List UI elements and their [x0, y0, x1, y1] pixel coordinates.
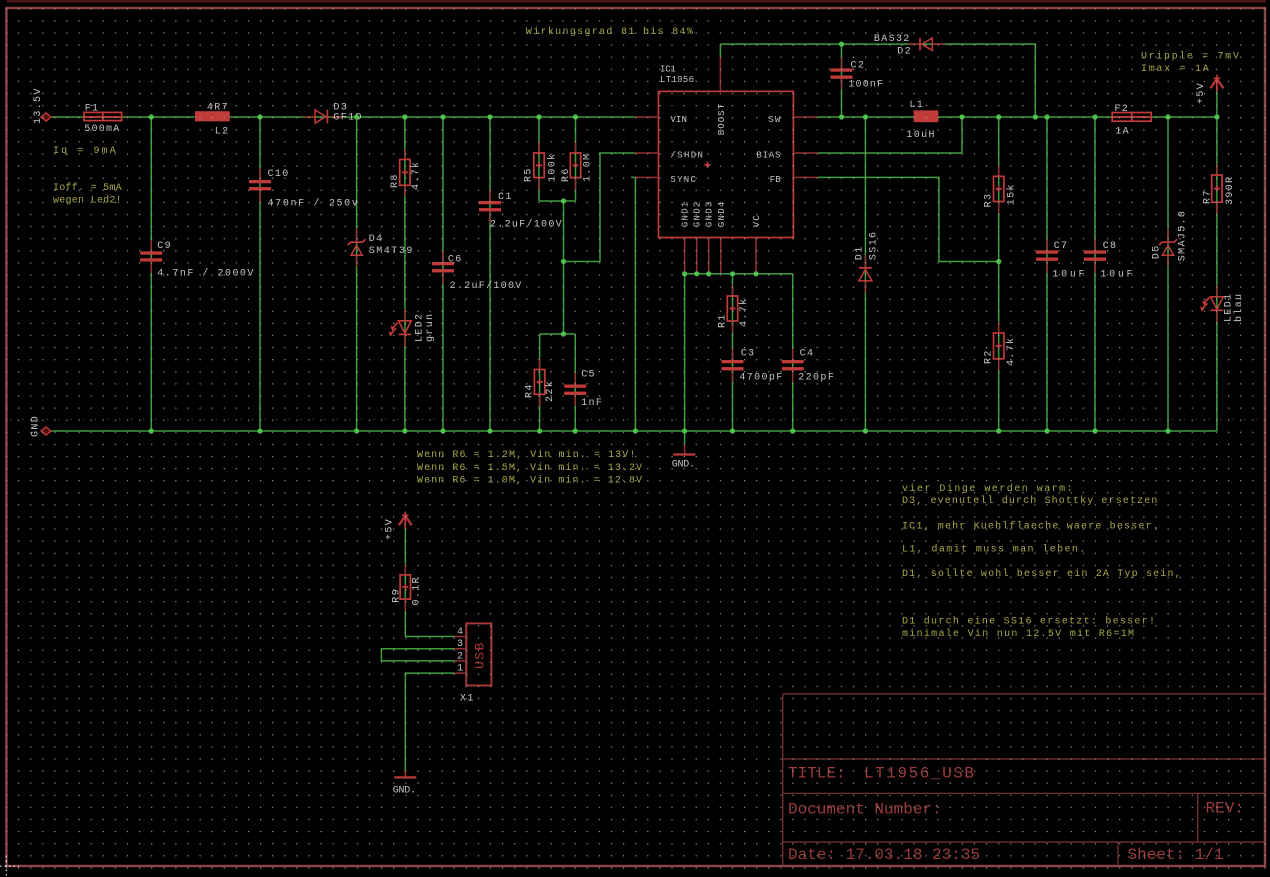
capacitor C1: [479, 190, 563, 231]
resistor R8: [390, 149, 422, 196]
junctions R5 R6 divider: [561, 198, 566, 336]
diode D2 BAS32: [874, 34, 945, 58]
junctions on SW rail: [839, 114, 1220, 119]
LED LED2: [389, 309, 437, 346]
zener diode D4: [348, 228, 414, 266]
junction FB divider: [996, 259, 1001, 264]
resistor R4: [524, 358, 555, 406]
wire R5 R6 bottom join: [539, 201, 576, 334]
resistor R1: [718, 285, 750, 333]
resistor R9: [391, 564, 422, 611]
wire IC ground join: [685, 274, 793, 431]
inductor L2: [195, 102, 230, 137]
port 13.5V input: [33, 87, 51, 124]
junctions IC ground row: [682, 271, 759, 276]
wire R3 R2 branch: [998, 117, 1000, 431]
capacitor C8: [1084, 239, 1134, 280]
connector X1 USB: [454, 623, 491, 704]
wire R8 LED2 branch: [404, 117, 406, 431]
fuse F2: [1112, 104, 1151, 138]
capacitor C9: [140, 240, 255, 279]
wire FB loop: [818, 177, 999, 261]
wire C5 leg: [574, 334, 576, 431]
wire R5 branch: [538, 117, 540, 201]
wire C4 branch: [792, 274, 794, 431]
title block outline: [783, 694, 1264, 866]
wire C6 branch: [442, 117, 444, 431]
ground symbol GND main: [672, 431, 697, 471]
power symbol +5V usb: [385, 512, 412, 540]
wire C7 branch: [1046, 117, 1048, 431]
zener diode D5: [1152, 210, 1189, 266]
wire SYNC net: [631, 177, 635, 431]
junctions on VIN rail: [149, 114, 579, 119]
diode D3: [303, 102, 363, 123]
wire /SHDN net: [564, 153, 635, 262]
wire VIN input rail: [46, 116, 635, 118]
wire C1 branch: [489, 117, 491, 431]
wire R6 branch: [575, 117, 577, 201]
wire BIAS loop: [818, 117, 962, 153]
capacitor C4: [782, 349, 836, 384]
wire C9 branch: [150, 117, 152, 431]
diode D1 SS16: [855, 231, 880, 293]
inductor L1: [906, 100, 938, 141]
wire C10 branch: [259, 117, 261, 431]
capacitor C5: [564, 370, 603, 410]
wire BOOST top: [720, 44, 1035, 117]
port GND input: [31, 415, 52, 437]
capacitor C2: [831, 57, 885, 91]
fuse F1: [84, 104, 122, 136]
resistor R6: [561, 142, 594, 190]
wire +5V R7 LED1 branch: [1216, 87, 1218, 431]
wire D4 branch: [356, 117, 358, 431]
resistor R5: [524, 142, 559, 190]
power symbol +5V output: [1196, 75, 1223, 104]
wire D1 branch: [864, 117, 866, 431]
junctions on ground bus: [149, 428, 1171, 433]
junction C2 top: [839, 42, 844, 47]
capacitor C10: [249, 169, 359, 210]
ground symbol GND usb: [393, 770, 418, 797]
wire +5V to R9: [404, 527, 406, 637]
wire USB pin1 to GND: [405, 673, 454, 776]
resistor R2: [984, 322, 1018, 371]
wire SW output rail: [818, 116, 1217, 118]
wire USB pin3 pin2 loop: [381, 649, 454, 661]
capacitor C3: [722, 349, 784, 384]
wire C2 branch: [841, 44, 843, 117]
wire D5 branch: [1167, 117, 1169, 431]
op-amp IC1 LT1956: [635, 57, 818, 273]
wire ground bus: [46, 430, 1217, 432]
wire R9 to USB pin4: [405, 636, 454, 638]
wire R4 leg: [539, 334, 541, 431]
resistor R3: [983, 165, 1017, 213]
resistor R7: [1202, 164, 1236, 214]
LED LED1: [1200, 285, 1245, 322]
wire C8 branch: [1094, 117, 1096, 431]
capacitor C6: [432, 251, 523, 293]
capacitor C7: [1036, 239, 1086, 280]
wire R1 C3 branch: [732, 274, 734, 431]
